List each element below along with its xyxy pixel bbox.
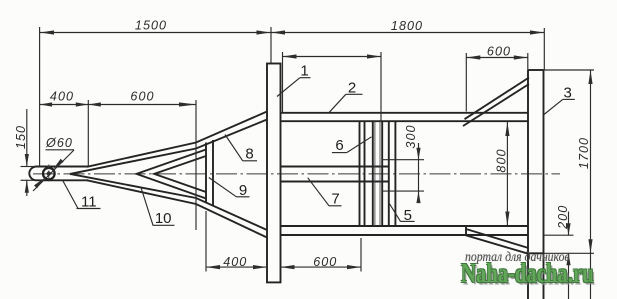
dimension 400 bottom (206, 266, 267, 268)
axle band 7 top (281, 166, 390, 168)
label 5 (389, 203, 401, 221)
svg-text:600: 600 (313, 255, 337, 269)
dimension 300 middle (382, 159, 424, 161)
svg-text:600: 600 (130, 90, 154, 104)
unlabeled dimension over frame (283, 56, 382, 58)
bottom right diagonal brace (466, 229, 529, 248)
svg-text:5: 5 (404, 207, 412, 224)
axle band 7 bottom (281, 181, 390, 183)
brace end stub (465, 226, 467, 235)
dimension 800 (506, 122, 508, 226)
cross member 5 channel lines (372, 121, 374, 226)
svg-text:400: 400 (223, 255, 247, 269)
svg-text:3: 3 (564, 84, 572, 101)
label 10 (141, 188, 153, 226)
svg-text:1800: 1800 (391, 19, 423, 33)
svg-text:300: 300 (404, 124, 418, 148)
dimension 400 top left (40, 104, 89, 106)
vertical strut 9 (205, 143, 207, 204)
label 3 (544, 99, 563, 114)
dimension 600 bottom (281, 266, 362, 268)
label 11 (63, 181, 78, 209)
svg-text:150: 150 (14, 125, 28, 149)
dimension 600 top right (466, 57, 528, 59)
dimension 1500 (40, 32, 271, 34)
hitch sleeve 11 body (29, 167, 88, 181)
drawbar upper beam 8 top edge (87, 112, 267, 167)
svg-text:Ø60: Ø60 (45, 136, 73, 150)
dimension 1700 right (544, 69, 595, 71)
hitch eye circle (43, 168, 55, 180)
watermark Naha-dacha.ru (461, 260, 594, 287)
axle bracket piece near 5 (388, 121, 390, 226)
watermark script line (465, 250, 570, 266)
top side rail 2 (281, 112, 529, 114)
svg-text:11: 11 (81, 194, 97, 211)
V-brace 10 inner edge (154, 156, 206, 192)
label 2 (329, 94, 346, 113)
dia 60 leader arrows (53, 159, 64, 170)
svg-text:6: 6 (335, 137, 343, 154)
svg-text:1500: 1500 (135, 19, 167, 33)
front cross beam 1 (267, 64, 281, 283)
dimension 1800 (271, 32, 544, 34)
dimension 150 left (26, 109, 28, 167)
svg-text:400: 400 (50, 90, 74, 104)
hitch sleeve extension lines left (21, 166, 37, 168)
svg-text:200: 200 (556, 205, 570, 230)
hitch eye vertical centerline (48, 165, 50, 184)
svg-text:600: 600 (487, 45, 511, 59)
label 8 (225, 135, 243, 161)
bottom side rail (281, 225, 529, 227)
label 1 (277, 78, 300, 97)
hitch eye center dot (47, 172, 51, 176)
svg-text:9: 9 (239, 182, 247, 199)
rear cross beam 3 (527, 70, 529, 299)
svg-text:10: 10 (155, 210, 172, 227)
label 7 (308, 178, 329, 206)
drawbar upper beam 8 bottom edge (70, 120, 267, 174)
label 6 (347, 137, 372, 153)
svg-text:1: 1 (300, 63, 308, 80)
svg-text:1700: 1700 (577, 137, 591, 169)
top right diagonal brace (465, 78, 530, 120)
cross member 6 (359, 121, 361, 226)
dimension 600 top left (88, 104, 196, 106)
svg-text:8: 8 (245, 146, 253, 163)
label 9 (209, 178, 237, 197)
centerline main axis (33, 173, 560, 175)
dia 60 leader line (33, 150, 74, 191)
drawbar lower beam top edge (70, 174, 267, 230)
svg-text:7: 7 (331, 190, 339, 207)
drawbar lower beam bottom edge (87, 180, 267, 237)
V-brace 10 outer edge (137, 150, 207, 199)
svg-text:800: 800 (495, 148, 509, 172)
svg-text:2: 2 (348, 79, 356, 96)
dimension 200 right (544, 234, 574, 236)
